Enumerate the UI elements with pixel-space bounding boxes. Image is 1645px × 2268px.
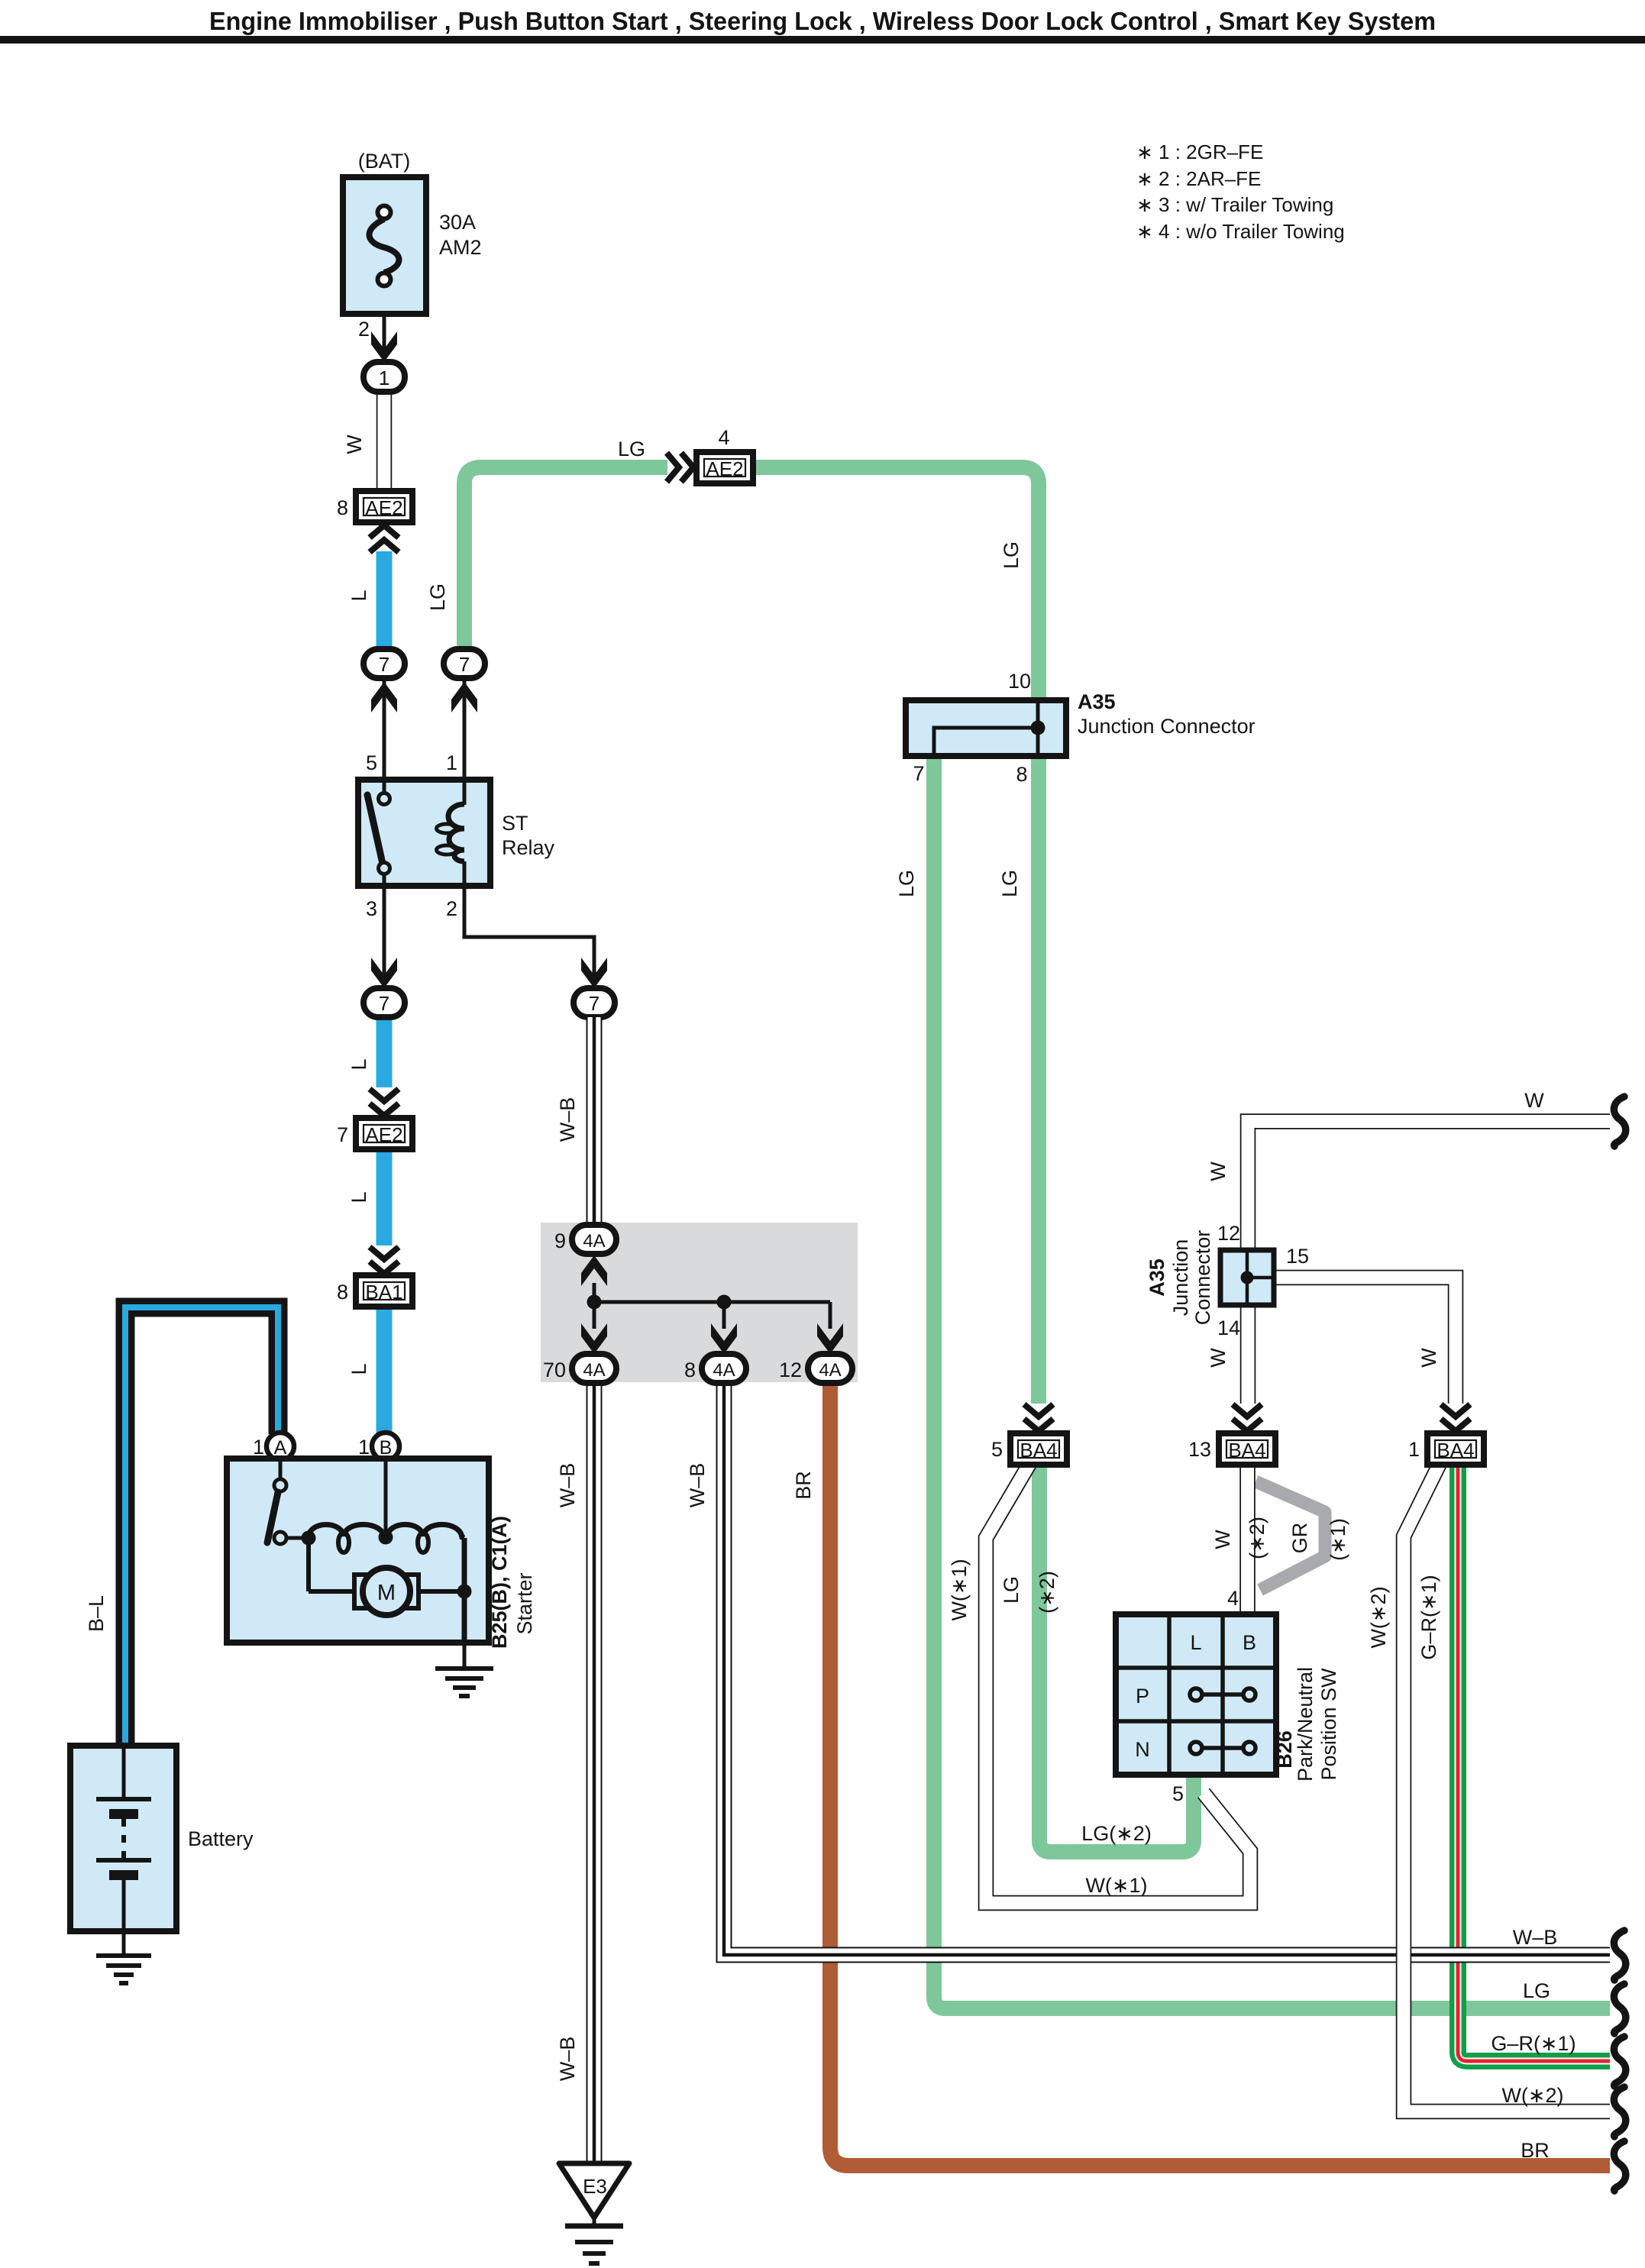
svg-text:1: 1 <box>446 751 457 774</box>
svg-text:12: 12 <box>1217 1222 1240 1245</box>
svg-text:70: 70 <box>543 1359 566 1381</box>
svg-text:AE2: AE2 <box>706 457 743 480</box>
wire W A35 pin14 down to 13 BA4 <box>1240 1305 1256 1404</box>
svg-text:LG: LG <box>1000 1576 1023 1604</box>
starter circle B <box>358 1433 399 1460</box>
battery <box>70 1746 254 1931</box>
svg-text:GR: GR <box>1288 1523 1311 1554</box>
svg-text:Starter: Starter <box>513 1572 536 1634</box>
svg-text:AM2: AM2 <box>439 236 482 259</box>
svg-text:15: 15 <box>1286 1245 1309 1268</box>
svg-text:8: 8 <box>337 1281 348 1304</box>
svg-text:10: 10 <box>1008 670 1031 693</box>
svg-text:Junction Connector: Junction Connector <box>1078 715 1256 738</box>
starter B25(B),C1(A) box <box>227 1459 489 1643</box>
svg-text:P: P <box>1136 1685 1149 1707</box>
svg-text:∗ 2 : 2AR–FE: ∗ 2 : 2AR–FE <box>1136 167 1261 190</box>
connector 7 stadium right <box>444 649 485 678</box>
chevron down to 1 BA4 <box>1441 1404 1470 1431</box>
connector 7 AE2 <box>337 1118 412 1149</box>
connector 9 4A <box>554 1225 616 1254</box>
wire W from 13 BA4 down to B26 pin4 <box>1239 1464 1256 1614</box>
svg-text:12: 12 <box>779 1359 802 1381</box>
svg-text:LG: LG <box>1523 1979 1550 2002</box>
svg-text:A35: A35 <box>1146 1258 1168 1297</box>
wire B-L battery to starter A <box>125 1307 278 1746</box>
connector 5 BA4 <box>991 1433 1067 1465</box>
svg-text:1: 1 <box>379 367 389 389</box>
wire relay pin5 <box>383 678 386 780</box>
chevron down to 5 BA4 <box>1024 1404 1053 1431</box>
connector 1 BA4 <box>1408 1433 1484 1465</box>
fuse 30A AM2 <box>343 150 482 314</box>
wire LG A35 pin8 down to 5 BA4 <box>1031 756 1046 1404</box>
svg-text:AE2: AE2 <box>365 496 402 519</box>
svg-text:W–B: W–B <box>1513 1926 1558 1949</box>
wire W-B from 8 4A down then right bus to edge <box>724 1383 1610 1955</box>
svg-text:LG: LG <box>618 438 645 460</box>
wire GR(*1) gray alternate 13 BA4 to B26 pin4 <box>1256 1481 1325 1590</box>
wire LG from ST relay pin1 up and right to corner then down to A35 <box>464 467 667 651</box>
connector 13 BA4 <box>1188 1433 1275 1465</box>
svg-text:G–R(∗1): G–R(∗1) <box>1491 2032 1576 2055</box>
svg-text:B: B <box>380 1437 393 1459</box>
svg-text:3: 3 <box>366 897 377 920</box>
connector 7 stadium left <box>364 649 405 678</box>
wire fuse pin2 <box>383 314 386 362</box>
svg-text:L: L <box>347 1058 370 1070</box>
wire G-R(*1) from 1 BA4 down and right to edge <box>1458 1464 1610 2061</box>
wire W(*1) U from 5 BA4 to B26 pin5 <box>986 1464 1250 1903</box>
svg-text:∗ 3 : w/ Trailer Towing: ∗ 3 : w/ Trailer Towing <box>1136 193 1333 216</box>
svg-text:4: 4 <box>1227 1587 1239 1610</box>
wire LG(*2) U from 5 BA4 to B26 pin5 <box>1039 1464 1194 1852</box>
svg-text:B25(B), C1(A): B25(B), C1(A) <box>488 1516 511 1649</box>
connector 8 AE2 <box>337 491 412 522</box>
wire W-B from 70 4A down to E3 ground <box>587 1383 603 2163</box>
svg-text:W: W <box>343 435 366 454</box>
svg-text:W: W <box>1211 1530 1234 1549</box>
svg-text:4A: 4A <box>713 1360 735 1381</box>
battery ground <box>96 1931 151 1983</box>
wire W from right edge to A35 junction pin 12 <box>1248 1122 1610 1251</box>
svg-text:W–B: W–B <box>556 1097 579 1142</box>
svg-text:7: 7 <box>459 653 470 676</box>
ST relay box <box>358 780 555 886</box>
connector 12 4A <box>779 1354 852 1383</box>
chevron up below 8 AE2 <box>370 525 399 552</box>
svg-text:4A: 4A <box>583 1360 605 1381</box>
wire relay pin2 right and down <box>464 886 594 976</box>
svg-text:L: L <box>347 590 370 601</box>
svg-text:BA1: BA1 <box>365 1281 402 1304</box>
svg-text:(∗2): (∗2) <box>1036 1571 1058 1614</box>
wire LG A35 pin7 down to bottom bus and right edge <box>934 756 1610 2008</box>
svg-text:W(∗2): W(∗2) <box>1367 1586 1390 1648</box>
svg-text:W: W <box>1207 1348 1230 1368</box>
svg-text:7: 7 <box>337 1123 348 1146</box>
svg-text:5: 5 <box>366 751 377 774</box>
arrow up into 7 left <box>371 682 397 712</box>
wire L blue fuse AE2 to relay pin5 stadium <box>377 551 393 651</box>
svg-text:W–B: W–B <box>686 1463 709 1508</box>
wire relay pin3 down <box>383 886 386 976</box>
svg-text:Park/Neutral: Park/Neutral <box>1294 1667 1317 1782</box>
svg-text:∗ 4 : w/o Trailer Towing: ∗ 4 : w/o Trailer Towing <box>1136 220 1345 243</box>
wire relay pin1 <box>463 678 467 780</box>
svg-text:1: 1 <box>358 1436 370 1459</box>
arrow up into 7 right <box>451 682 477 712</box>
svg-text:5: 5 <box>1172 1782 1184 1805</box>
svg-text:7: 7 <box>379 992 389 1015</box>
connector 8 BA1 <box>337 1275 412 1307</box>
svg-text:BA4: BA4 <box>1020 1439 1057 1462</box>
svg-text:8: 8 <box>684 1359 696 1381</box>
connector 7 stadium pin3 <box>364 988 405 1017</box>
chevron right to 4 AE2 <box>667 453 693 482</box>
svg-text:1: 1 <box>253 1436 264 1459</box>
svg-text:W: W <box>1524 1089 1544 1112</box>
svg-text:7: 7 <box>379 653 389 676</box>
svg-text:(∗2): (∗2) <box>1246 1517 1268 1559</box>
svg-text:L: L <box>1190 1631 1201 1654</box>
svg-text:LG: LG <box>895 870 918 897</box>
svg-text:W: W <box>1417 1348 1440 1368</box>
svg-text:W(∗1): W(∗1) <box>1085 1874 1147 1897</box>
connector 70 4A <box>543 1354 616 1383</box>
svg-text:2: 2 <box>446 897 457 920</box>
svg-text:9: 9 <box>554 1229 566 1252</box>
svg-text:4A: 4A <box>583 1231 605 1252</box>
svg-text:L: L <box>347 1191 370 1203</box>
svg-text:LG: LG <box>1000 541 1023 569</box>
svg-text:W–B: W–B <box>556 2037 579 2082</box>
svg-text:Junction: Junction <box>1169 1239 1192 1317</box>
svg-text:W: W <box>1207 1161 1230 1181</box>
svg-text:BR: BR <box>1521 2139 1550 2162</box>
junction node row <box>594 1300 830 1304</box>
svg-text:L: L <box>347 1363 370 1375</box>
starter circle A <box>253 1433 294 1460</box>
svg-text:B26: B26 <box>1273 1730 1296 1769</box>
svg-text:8: 8 <box>1016 763 1027 786</box>
svg-text:Battery: Battery <box>188 1827 254 1850</box>
svg-text:W–B: W–B <box>556 1463 579 1508</box>
svg-text:30A: 30A <box>439 211 476 234</box>
svg-text:A35: A35 <box>1078 690 1116 713</box>
svg-text:G–R(∗1): G–R(∗1) <box>1417 1575 1440 1659</box>
chevron down to 7 AE2 <box>370 1089 399 1116</box>
connector 4 AE2 <box>696 426 753 483</box>
A35 junction connector (small) <box>1146 1222 1309 1339</box>
wire W-B pin2 7 to 9 4A <box>587 1017 603 1225</box>
svg-text:2: 2 <box>358 318 370 341</box>
svg-text:Position SW: Position SW <box>1317 1668 1340 1781</box>
svg-text:(BAT): (BAT) <box>358 150 411 173</box>
connector 1 stadium <box>364 362 405 392</box>
svg-text:LG: LG <box>426 583 449 611</box>
svg-text:M: M <box>377 1581 396 1605</box>
svg-text:W(∗1): W(∗1) <box>948 1559 971 1620</box>
svg-text:5: 5 <box>991 1438 1003 1461</box>
svg-text:LG: LG <box>998 870 1021 897</box>
svg-text:BA4: BA4 <box>1437 1439 1474 1462</box>
svg-text:∗ 1 : 2GR–FE: ∗ 1 : 2GR–FE <box>1136 141 1263 163</box>
svg-text:W(∗2): W(∗2) <box>1501 2084 1563 2107</box>
svg-text:BR: BR <box>792 1471 815 1500</box>
svg-text:13: 13 <box>1188 1438 1211 1461</box>
A35 junction connector (wide) <box>906 670 1256 786</box>
svg-text:LG(∗2): LG(∗2) <box>1081 1822 1152 1845</box>
svg-text:Engine Immobiliser , Push Butt: Engine Immobiliser , Push Button Start ,… <box>209 7 1436 35</box>
wire W A35 pin15 right and down to 1 BA4 <box>1274 1278 1456 1404</box>
svg-text:Connector: Connector <box>1191 1230 1214 1326</box>
chevron down to 8 BA1 <box>370 1247 399 1274</box>
svg-text:AE2: AE2 <box>365 1123 402 1146</box>
svg-text:ST: ST <box>502 812 528 835</box>
connector 8 4A <box>684 1354 746 1383</box>
svg-text:B: B <box>1243 1631 1256 1654</box>
svg-text:Relay: Relay <box>502 836 555 859</box>
svg-text:(∗1): (∗1) <box>1327 1518 1349 1561</box>
svg-text:7: 7 <box>589 992 600 1015</box>
B26 park/neutral position switch <box>1116 1587 1340 1805</box>
svg-text:A: A <box>274 1437 287 1459</box>
svg-text:BA4: BA4 <box>1228 1439 1265 1462</box>
svg-text:14: 14 <box>1217 1317 1240 1339</box>
wire BR from 12 4A down and right to edge <box>830 1383 1610 2166</box>
svg-text:4A: 4A <box>819 1360 841 1381</box>
svg-text:1: 1 <box>1408 1438 1420 1461</box>
svg-text:N: N <box>1135 1738 1150 1761</box>
wire W fuse to 8 AE2 <box>377 391 393 493</box>
svg-text:E3: E3 <box>583 2175 607 2198</box>
wire W(*2) from 1 BA4 down and right to edge <box>1404 1464 1610 2111</box>
svg-text:B–L: B–L <box>85 1595 108 1632</box>
chevron down to 13 BA4 <box>1233 1404 1262 1431</box>
svg-text:8: 8 <box>337 496 348 519</box>
wire L blue relay pin3 chain <box>377 1017 393 1087</box>
svg-text:4: 4 <box>718 426 729 449</box>
E3 ground <box>559 2163 629 2263</box>
connector 7 stadium pin2 <box>574 988 615 1017</box>
starter ground <box>435 1643 493 1696</box>
arrow into connector 1 <box>371 331 397 362</box>
wire break squiggle W top <box>1614 1097 1625 1146</box>
svg-text:7: 7 <box>913 762 924 785</box>
gray harness box <box>541 1223 858 1382</box>
